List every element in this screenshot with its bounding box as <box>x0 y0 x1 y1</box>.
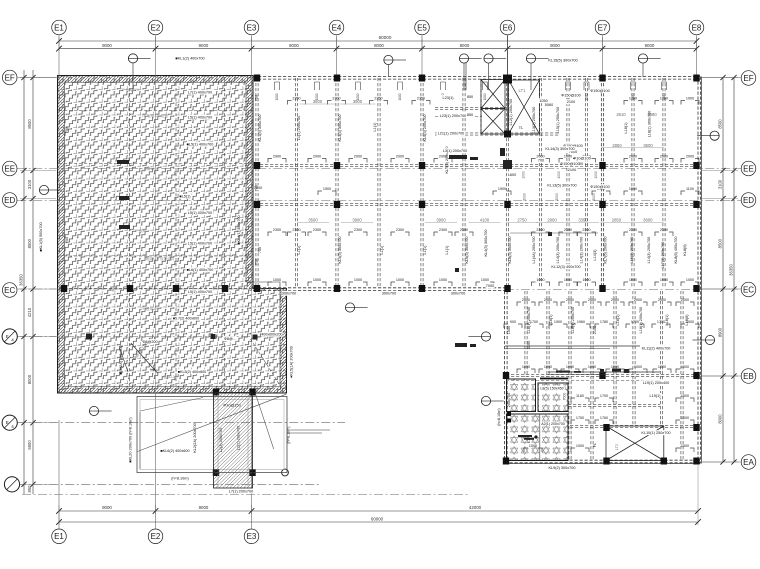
axis E4f row <box>17 336 287 338</box>
svg-text:●KL5(1A) 200x700: ●KL5(1A) 200x700 <box>290 346 294 378</box>
column 9 <box>504 162 510 169</box>
svg-text:EE: EE <box>4 164 15 173</box>
stair LT1 small shaft lower <box>481 109 505 135</box>
svg-text:900: 900 <box>510 320 516 324</box>
svg-text:1000: 1000 <box>522 171 526 179</box>
bracket row wing EC 638 <box>629 302 633 306</box>
column 38 <box>127 285 133 292</box>
section stub E2t <box>132 63 134 90</box>
left dim ext 484.3 <box>20 483 56 485</box>
detail cluster L19 beam <box>510 232 598 234</box>
left dim tick 422.7 <box>30 420 35 425</box>
svg-text:300x700: 300x700 <box>451 292 466 296</box>
slab border band bottom <box>58 388 286 394</box>
bracket row wing upper 661 <box>652 324 656 328</box>
grid circle left ED <box>2 193 17 208</box>
side label v ●KL5(1A) 200 292 <box>290 346 294 378</box>
slab label ■L5(1) <box>178 194 191 199</box>
svg-text:L7(1) 200x700: L7(1) 200x700 <box>229 489 254 493</box>
svg-text:42000: 42000 <box>469 505 482 510</box>
axis line E5 top stub <box>421 35 423 77</box>
bracket row wing mid2 604 <box>595 420 599 424</box>
svg-text:850: 850 <box>467 113 473 117</box>
bracket row wing mid 580 <box>571 398 575 402</box>
stair landing beam 2 <box>435 116 482 118</box>
svg-text:L19(1) 200x400: L19(1) 200x400 <box>643 381 670 385</box>
column 7 <box>334 162 340 169</box>
slab label L5(1) 400x700 <box>187 210 214 215</box>
bracket row wing mid2 580 <box>571 420 575 424</box>
svg-text:■5.7(2) 400x600: ■5.7(2) 400x600 <box>173 317 199 321</box>
beam label h Φ150@100 573 <box>564 143 581 148</box>
bracket row ED upper 633 <box>624 191 628 195</box>
svg-text:E3: E3 <box>247 23 257 32</box>
bracket row EF-EE 664 <box>655 101 659 105</box>
svg-text:L1(1): L1(1) <box>380 245 384 255</box>
right dim ext 462 <box>702 461 738 463</box>
beam label h L3(1) 200x700 455 <box>442 148 469 153</box>
column 24 <box>503 372 509 379</box>
column 16 <box>599 201 605 208</box>
slab label L7(1) 400x700 <box>187 90 214 95</box>
section mark circle 1 <box>459 54 468 63</box>
svg-text:8500: 8500 <box>718 238 723 248</box>
column 31 <box>693 424 699 431</box>
svg-text:E5: E5 <box>417 23 427 32</box>
detail cluster slab left <box>117 160 130 229</box>
slab label 400x600x200 <box>261 332 282 337</box>
svg-text:36350: 36350 <box>729 264 734 276</box>
beam label h KL11(2) 400x700 656 <box>641 346 672 351</box>
star room label 7000 <box>562 392 567 400</box>
svg-text:1000: 1000 <box>611 365 619 369</box>
column 12 <box>254 201 260 208</box>
bracket row EC 443 <box>434 282 438 286</box>
svg-text:KL4(3) 300x700: KL4(3) 300x700 <box>484 229 488 256</box>
svg-text:2000: 2000 <box>658 298 666 302</box>
bracket row wing EC 615 <box>606 302 610 306</box>
bracket row ED-EC 664 <box>655 232 659 236</box>
detail tiny marks wing <box>455 232 552 272</box>
svg-text:60000: 60000 <box>379 35 392 40</box>
grid circle right EB <box>741 369 756 384</box>
svg-text:L14(3): L14(3) <box>593 249 597 261</box>
svg-text:3500: 3500 <box>313 99 323 104</box>
axis E3 through slab <box>251 77 253 393</box>
bottom dim tick1 155.5 <box>153 508 159 514</box>
svg-text:L1(4A) 200x700: L1(4A) 200x700 <box>532 236 536 263</box>
svg-text:2900: 2900 <box>547 218 557 223</box>
svg-text:■KL6(2) 400x600: ■KL6(2) 400x600 <box>160 449 189 453</box>
bracket row wing upper 635 <box>626 324 630 328</box>
beam label h Φ150@100 600 <box>591 88 608 93</box>
slab label Φ10@150 <box>224 403 239 408</box>
hatched slab region outline <box>58 76 287 394</box>
detail cluster stair base <box>449 155 478 160</box>
svg-text:ED: ED <box>743 196 754 205</box>
svg-text:E: E <box>6 420 9 425</box>
svg-text:2300: 2300 <box>660 228 668 232</box>
slab interior beam col 2 <box>175 78 177 391</box>
bottom ext E3 <box>251 505 253 514</box>
column 1 <box>334 75 340 82</box>
beam line vertical right 0 <box>538 78 540 288</box>
bracket row wing EB 548 <box>539 369 543 373</box>
svg-text:L1(1): L1(1) <box>373 122 377 132</box>
bracket row wing upper 690 <box>681 324 685 328</box>
column 2 <box>419 75 425 82</box>
grid circle top E7 <box>595 20 610 35</box>
beam label h KL12(3) 400x700 566 <box>551 264 582 269</box>
bracket row ED-EC 633 <box>624 232 628 236</box>
svg-text:L5(1) 400x700: L5(1) 400x700 <box>188 242 213 246</box>
svg-text:1000: 1000 <box>681 416 689 420</box>
svg-text:8000: 8000 <box>27 374 32 384</box>
stair LT1 main shaft <box>509 80 540 134</box>
section stub E4t <box>387 65 389 78</box>
svg-text:750: 750 <box>258 247 262 253</box>
svg-text:E4: E4 <box>332 23 342 32</box>
column 15 <box>504 201 510 208</box>
svg-text:E2: E2 <box>151 23 161 32</box>
bracket row wing EC 662 <box>653 302 657 306</box>
top edge rebar bracket 317 <box>315 82 320 90</box>
grid circle left EE <box>2 161 17 176</box>
svg-text:8000: 8000 <box>289 43 299 48</box>
column 30 <box>693 458 699 465</box>
bracket row ED-EC 568 <box>559 232 563 236</box>
slab label L5(1) 400x700 <box>187 241 214 246</box>
svg-text:2000: 2000 <box>354 154 362 158</box>
svg-text:2750: 2750 <box>517 218 527 223</box>
top dim tick 251.5 <box>249 46 255 52</box>
svg-text:1960: 1960 <box>577 320 585 324</box>
left dim ext 422.7 <box>20 422 56 424</box>
svg-text:LT1: LT1 <box>519 88 527 93</box>
svg-text:Φ150@100: Φ150@100 <box>561 94 581 98</box>
grid circle bottom E3 <box>244 529 259 544</box>
section stub E5b <box>488 63 490 90</box>
svg-text:L18(6): L18(6) <box>685 314 689 326</box>
svg-text:TL: TL <box>519 126 523 130</box>
annex outline <box>137 397 287 473</box>
svg-text:EC: EC <box>4 286 15 295</box>
svg-text:9000: 9000 <box>102 505 112 510</box>
right dim ext 77.5 <box>702 77 738 79</box>
svg-text:E1: E1 <box>54 532 64 541</box>
svg-text:3100: 3100 <box>718 179 723 189</box>
column 10 <box>599 162 605 169</box>
beam label h TL 521 <box>518 125 523 130</box>
svg-text:1000: 1000 <box>483 93 487 100</box>
left dim ext 336.5 <box>20 336 56 338</box>
slab label ■L5(1) 400x700 <box>186 142 215 147</box>
slab interior beam col 1 <box>129 78 131 391</box>
building right edge outer solid <box>701 77 703 464</box>
bottom dim line 2 <box>59 521 698 523</box>
svg-text:L18(1) 300x700: L18(1) 300x700 <box>648 111 652 138</box>
svg-text:3900: 3900 <box>436 218 446 223</box>
bracket row wing upper 604 <box>595 324 599 328</box>
column 20 <box>419 285 425 292</box>
svg-text:1000: 1000 <box>564 278 572 282</box>
svg-text:3250: 3250 <box>527 341 531 349</box>
mid-section bottom edge <box>253 287 507 289</box>
star room lower <box>507 414 569 461</box>
bracket row ED-EC 464 <box>455 232 459 236</box>
star room upper A <box>507 379 536 412</box>
grid circle left frac 2 <box>2 415 17 430</box>
svg-text:1780: 1780 <box>600 320 608 324</box>
beam line vertical wing 4 <box>613 291 615 427</box>
bracket row EE 317 <box>308 159 312 163</box>
star room beam black bar <box>540 378 568 380</box>
annex big ramp diagonal <box>138 394 287 451</box>
svg-text:2000: 2000 <box>592 193 596 201</box>
svg-text:750: 750 <box>255 95 259 101</box>
bracket row ED-EC 296.5 <box>288 232 292 236</box>
right dim tick 77.5 <box>720 75 725 80</box>
svg-text:1000: 1000 <box>354 278 362 282</box>
svg-text:5060: 5060 <box>545 103 553 107</box>
axis line E8 top stub <box>696 35 698 77</box>
svg-text:■KL20 200x700 (h=8.10m): ■KL20 200x700 (h=8.10m) <box>129 417 133 463</box>
axis E2 through slab <box>155 77 157 393</box>
column 0 <box>254 75 260 82</box>
svg-text:E8: E8 <box>692 23 702 32</box>
beam line vertical E7 <box>600 78 602 288</box>
svg-text:8000: 8000 <box>460 43 470 48</box>
svg-text:2300: 2300 <box>354 228 362 232</box>
svg-text:1760: 1760 <box>600 416 608 420</box>
svg-text:1000: 1000 <box>544 365 552 369</box>
column 21 <box>504 285 510 292</box>
annex ramp edge 1 <box>140 398 203 412</box>
beam label h 850 470 <box>466 112 473 117</box>
axis EB stub <box>698 375 741 377</box>
column 18 <box>254 285 260 292</box>
beam row wing EB <box>506 373 698 375</box>
svg-text:L1(1): L1(1) <box>445 245 449 255</box>
top dim ext E7 <box>602 37 604 51</box>
top edge rebar bracket 586.5 <box>584 82 589 90</box>
column 29 <box>661 458 667 465</box>
beam line vertical right 1 <box>566 78 568 288</box>
section mark circle 6 <box>89 406 98 415</box>
svg-text:L1(1): L1(1) <box>297 245 301 255</box>
leader KL5 note <box>290 429 330 431</box>
beam label h L23(1) 200x700 453 <box>439 113 468 118</box>
beam line vertical wing 7 <box>680 291 682 460</box>
bracket row wing EB 570 <box>561 369 565 373</box>
svg-text:2F 板厚: 2F 板厚 <box>134 228 147 233</box>
bracket row EE 568 <box>559 159 563 163</box>
svg-text:8500: 8500 <box>27 119 32 129</box>
side label v [h=8.10m] 289 <box>287 427 291 444</box>
svg-text:E: E <box>6 334 9 339</box>
svg-text:1000: 1000 <box>564 154 572 158</box>
bracket row wing EB 685 <box>676 369 680 373</box>
svg-text:Φ8@...: Φ8@... <box>224 337 236 341</box>
svg-text:1700: 1700 <box>600 394 608 398</box>
section mark circle 5 <box>39 185 48 194</box>
beam row wing LT2 top <box>570 424 698 426</box>
side label v L2(3) 200x70 222 <box>219 428 223 453</box>
wing left edge <box>504 291 506 462</box>
svg-text:1000: 1000 <box>313 278 321 282</box>
svg-text:L14(3) 200x700: L14(3) 200x700 <box>647 237 651 264</box>
bracket row wing low 533 <box>524 448 528 452</box>
wing bottom edge <box>505 459 701 461</box>
column 19 <box>334 285 340 292</box>
bracket row wing mid2 685 <box>676 420 680 424</box>
beam line vertical mid 1 <box>294 78 296 288</box>
section stub E6b <box>530 63 532 90</box>
side label v ■L8(2A) 300x 122 <box>119 345 123 374</box>
bracket row EC 317 <box>308 282 312 286</box>
svg-text:EB: EB <box>743 372 754 381</box>
axis EF right stub <box>700 77 741 79</box>
svg-text:KL6(3) 300x700: KL6(3) 300x700 <box>465 236 469 263</box>
top dim ext E6 <box>507 37 509 51</box>
svg-text:1000: 1000 <box>686 278 694 282</box>
grid circle top E3 <box>244 20 259 35</box>
side label v 700 68 <box>65 237 69 243</box>
annex hatched strip <box>214 393 253 489</box>
beam line vertical right 4 <box>631 78 633 288</box>
svg-text:2100: 2100 <box>568 168 576 172</box>
annex label h810 a <box>171 476 190 481</box>
stair bay wall left <box>480 79 482 134</box>
slab interior beam row 1 <box>59 110 252 112</box>
grid circle top E8 <box>689 20 704 35</box>
svg-text:KL12(3) 400x700: KL12(3) 400x700 <box>551 265 580 269</box>
slab label ■KL6(2) 400x600 <box>160 448 191 453</box>
beam line vertical right 3 <box>600 78 602 288</box>
bracket row EF-EE 690 <box>681 101 685 105</box>
svg-text:L13(2) 200x700: L13(2) 200x700 <box>532 107 536 134</box>
axis E1 through slab <box>58 77 60 393</box>
svg-text:1900: 1900 <box>498 187 506 191</box>
svg-text:1000: 1000 <box>576 444 584 448</box>
svg-text:Φ150@100: Φ150@100 <box>590 89 610 93</box>
svg-text:(h=8.10m): (h=8.10m) <box>497 408 501 426</box>
svg-text:8500: 8500 <box>27 238 32 248</box>
svg-text:2300: 2300 <box>313 228 321 232</box>
svg-text:Φ10@100: Φ10@100 <box>573 157 590 161</box>
bracket row EC 568 <box>559 282 563 286</box>
svg-text:2100: 2100 <box>593 326 597 334</box>
svg-text:2900: 2900 <box>273 154 281 158</box>
svg-text:8900: 8900 <box>718 327 723 337</box>
beam line vertical wing 5 <box>632 291 634 427</box>
bracket row EC 277 <box>268 282 272 286</box>
svg-text:L5(1) 400x700: L5(1) 400x700 <box>188 116 213 120</box>
bracket row ED-EC 540.5 <box>532 232 536 236</box>
svg-text:1000: 1000 <box>275 93 279 100</box>
svg-text:Φ150@100: Φ150@100 <box>560 162 580 166</box>
beam label h Φ150@100 570 <box>561 161 578 166</box>
bottom dim tick2 b <box>695 519 701 525</box>
bracket row EE 400 <box>391 159 395 163</box>
column E6 EE large <box>503 160 512 169</box>
svg-text:2300: 2300 <box>629 228 637 232</box>
svg-text:300x700: 300x700 <box>382 292 397 296</box>
bracket row EF-EE 633 <box>624 101 628 105</box>
column 25 <box>599 372 605 379</box>
bracket row wing EB 526 <box>517 369 521 373</box>
stair landing beam 1 <box>435 106 507 108</box>
section stub E5a <box>463 63 465 90</box>
bracket row EE 633 <box>624 159 628 163</box>
axis EF left stub <box>17 77 60 79</box>
svg-text:1700: 1700 <box>530 320 538 324</box>
beam row ED <box>255 202 698 204</box>
svg-text:板厚120 双层双向: 板厚120 双层双向 <box>146 256 175 261</box>
svg-text:E1: E1 <box>54 23 64 32</box>
svg-text:■KL5(2) 400x600: ■KL5(2) 400x600 <box>178 370 206 374</box>
slab interior beam col 3 <box>224 78 226 391</box>
svg-text:L1(1) 200x700: L1(1) 200x700 <box>297 116 301 141</box>
grid circle top E2 <box>148 20 163 35</box>
svg-text:■KL4(1) 300x700: ■KL4(1) 300x700 <box>237 215 241 244</box>
left dim tick 170.5 <box>30 168 35 173</box>
grid circle top E6 <box>500 20 515 35</box>
axis EE <box>17 168 741 170</box>
svg-text:1000: 1000 <box>629 278 637 282</box>
bracket row ED-EC 443 <box>434 232 438 236</box>
svg-text:1900: 1900 <box>554 320 562 324</box>
top edge rebar bracket 277 <box>275 82 280 90</box>
svg-text:9000: 9000 <box>645 43 655 48</box>
svg-text:L16(3) 200x700: L16(3) 200x700 <box>630 237 634 264</box>
column 34 <box>249 389 255 396</box>
beam line vertical mid 3 <box>377 78 379 288</box>
svg-text:L18(1): L18(1) <box>624 122 628 134</box>
bracket row ED-EC 317 <box>308 232 312 236</box>
star room upper B <box>538 383 568 412</box>
star room inner cluster <box>518 435 538 440</box>
grid circle top E1 <box>52 20 67 35</box>
axis E1 bottom stub <box>58 420 60 529</box>
beam label h 7000 258 <box>253 185 262 190</box>
svg-text:KL13(5) 300x700: KL13(5) 300x700 <box>547 184 576 188</box>
beam label h Φ150@100 571 <box>562 93 579 98</box>
beam label h KL15(5) 300x700 563 <box>548 58 579 63</box>
beam label h 2100 571 <box>566 99 575 104</box>
top edge rebar bracket 568 <box>566 82 571 90</box>
svg-text:KL9(2) 300x700: KL9(2) 300x700 <box>548 466 575 470</box>
svg-text:2000: 2000 <box>566 298 574 302</box>
svg-text:2F 板厚120: 2F 板厚120 <box>121 87 139 92</box>
svg-text:1600: 1600 <box>508 173 516 177</box>
top dim tick 507.5 <box>505 46 511 52</box>
bracket row ED upper 327 <box>318 191 322 195</box>
left dim tick 77.5 <box>30 75 35 80</box>
column 33 <box>213 389 219 396</box>
column E6 EF large <box>503 75 512 84</box>
bracket row wing mid 685 <box>676 398 680 402</box>
svg-text:板厚120: 板厚120 <box>163 374 176 379</box>
bottom ext E8 <box>697 465 699 525</box>
column 40 <box>222 285 228 292</box>
svg-text:KL15(5) 300x700: KL15(5) 300x700 <box>548 59 577 63</box>
svg-text:1000: 1000 <box>588 365 596 369</box>
svg-text:E6: E6 <box>503 23 513 32</box>
bracket row EE 443 <box>434 159 438 163</box>
top dim segment line <box>59 48 697 50</box>
svg-text:L3(1) 200x700: L3(1) 200x700 <box>443 149 468 153</box>
